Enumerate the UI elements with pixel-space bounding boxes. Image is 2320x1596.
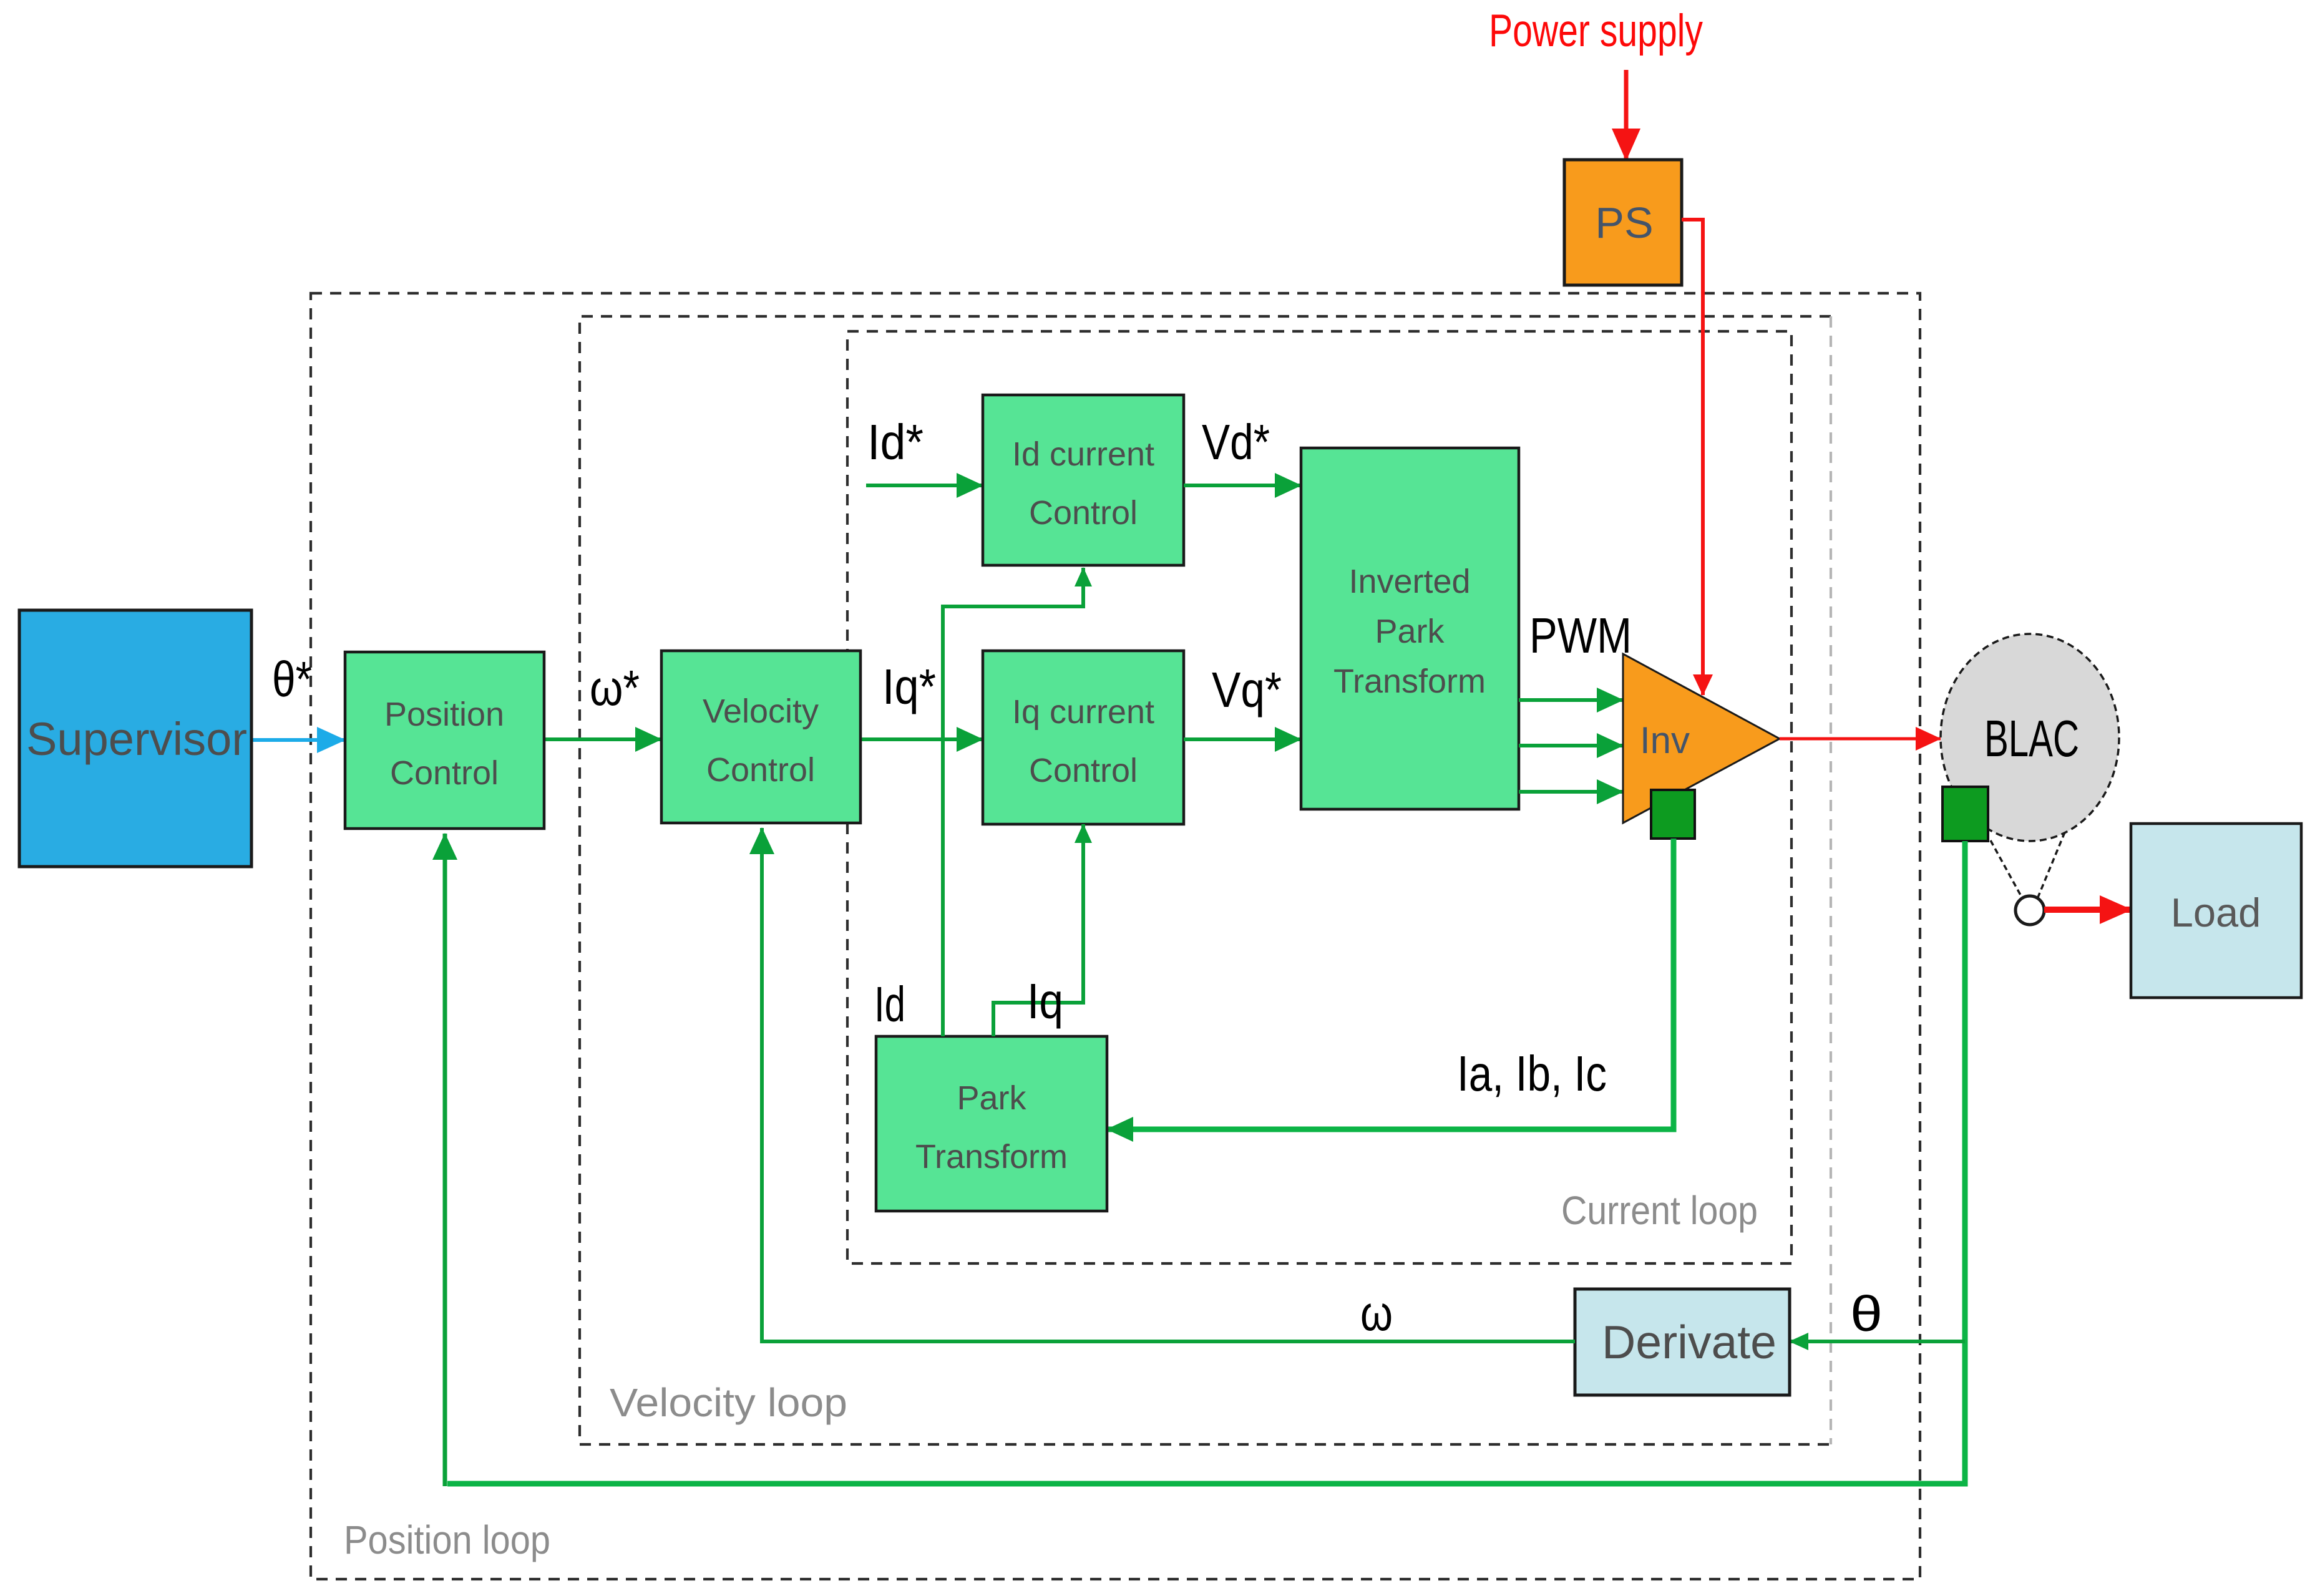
- svg-text:Transform: Transform: [915, 1138, 1068, 1175]
- svg-text:Velocity: Velocity: [703, 693, 819, 730]
- wire Id feedback (Park to Id current Control): [943, 568, 1083, 1036]
- wire position feedback riser: [443, 834, 447, 1486]
- inverter Inv: [1623, 654, 1780, 823]
- svg-text:Ia, Ib, Ic: Ia, Ib, Ic: [1457, 1046, 1607, 1101]
- wire omega feedback (Derivate to Velocity Control): [762, 828, 1575, 1341]
- velocity loop boundary: [580, 316, 1831, 1444]
- svg-text:Transform: Transform: [1333, 663, 1486, 700]
- wire theta feedback (BLAC sensor down and to Position Control): [447, 841, 1965, 1484]
- wire PWM phase a: [1519, 698, 1623, 702]
- block Id current Control: [983, 395, 1184, 565]
- svg-text:Vd*: Vd*: [1202, 414, 1270, 470]
- wire theta into Derivate: [1790, 1340, 1965, 1343]
- svg-text:ω: ω: [1360, 1285, 1393, 1341]
- svg-text:Control: Control: [706, 751, 815, 789]
- velocity loop right edge: [1830, 316, 1832, 1444]
- block Supervisor: [19, 610, 251, 867]
- svg-text:ω*: ω*: [590, 660, 640, 716]
- svg-text:Park: Park: [957, 1079, 1026, 1117]
- position loop boundary: [311, 293, 1920, 1579]
- current loop boundary: [847, 331, 1791, 1263]
- wire Inv to BLAC: [1780, 737, 1941, 741]
- svg-text:Id: Id: [874, 976, 905, 1032]
- wire BLAC to Load: [2044, 907, 2131, 913]
- svg-text:Supervisor: Supervisor: [26, 713, 247, 765]
- block Position Control: [345, 652, 544, 829]
- svg-text:Vq*: Vq*: [1212, 662, 1282, 718]
- svg-text:Load: Load: [2171, 890, 2261, 935]
- svg-text:Inverted: Inverted: [1348, 563, 1470, 600]
- svg-text:Current loop: Current loop: [1561, 1188, 1758, 1233]
- svg-text:θ: θ: [1850, 1286, 1883, 1341]
- svg-text:θ*: θ*: [272, 651, 312, 707]
- current sensor at Inv: [1651, 790, 1695, 839]
- svg-text:Control: Control: [1029, 752, 1138, 789]
- svg-text:PWM: PWM: [1529, 608, 1632, 663]
- svg-text:PS: PS: [1595, 198, 1653, 247]
- wire omega* (Position to Velocity Control): [544, 737, 661, 741]
- block Velocity Control: [661, 651, 860, 823]
- svg-text:Derivate: Derivate: [1602, 1316, 1777, 1368]
- svg-text:Id current: Id current: [1012, 435, 1154, 473]
- block Derivate: [1575, 1289, 1790, 1395]
- motor shaft pin: [1991, 832, 2065, 925]
- block Iq current Control: [983, 651, 1184, 824]
- wire power supply input: [1624, 70, 1629, 160]
- wire Ia Ib Ic (phase currents to Park Transform): [1107, 839, 1674, 1129]
- block PS: [1564, 160, 1682, 285]
- motor BLAC: [1941, 634, 2119, 841]
- svg-text:Id*: Id*: [867, 414, 924, 470]
- svg-text:Control: Control: [1029, 494, 1138, 532]
- wire theta* (Supervisor to Position Control): [251, 738, 345, 742]
- block Inverted Park Transform: [1301, 448, 1519, 809]
- svg-text:Iq: Iq: [1027, 973, 1063, 1029]
- svg-text:Power supply: Power supply: [1489, 6, 1703, 56]
- svg-text:Inv: Inv: [1640, 719, 1690, 761]
- svg-text:Iq current: Iq current: [1012, 693, 1154, 731]
- wire Vq* (Iq control to Inverted Park): [1184, 737, 1301, 741]
- wire PWM phase b: [1519, 744, 1623, 747]
- svg-text:Park: Park: [1375, 613, 1445, 650]
- wire Id* (setpoint into Id current Control): [866, 484, 983, 487]
- svg-text:Position loop: Position loop: [344, 1517, 550, 1562]
- svg-text:Velocity loop: Velocity loop: [610, 1380, 847, 1425]
- svg-text:Position: Position: [384, 696, 504, 733]
- position sensor at BLAC: [1942, 787, 1988, 841]
- wire Iq feedback (Park to Iq current Control): [993, 824, 1083, 1036]
- svg-text:BLAC: BLAC: [1984, 709, 2079, 767]
- wire Iq* (Velocity to Iq current Control): [860, 737, 983, 741]
- wire Vd* (Id control to Inverted Park): [1184, 484, 1301, 487]
- block Park Transform: [876, 1036, 1107, 1211]
- svg-text:Control: Control: [390, 754, 499, 792]
- svg-text:Iq*: Iq*: [882, 659, 936, 714]
- block Load: [2131, 824, 2301, 998]
- wire PWM phase c: [1519, 790, 1623, 794]
- wire PS to Inv: [1682, 220, 1703, 695]
